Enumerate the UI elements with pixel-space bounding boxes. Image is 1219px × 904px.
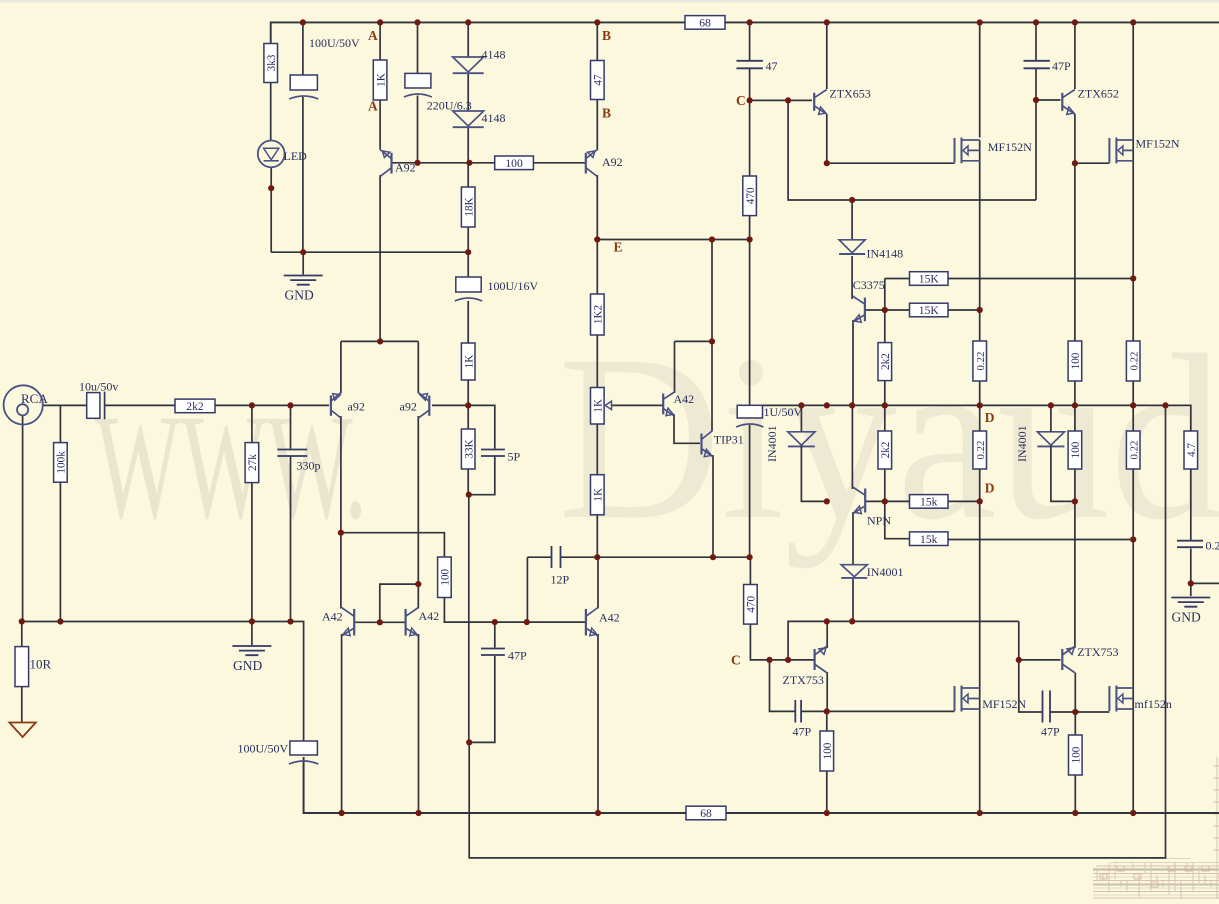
svg-text:18K: 18K — [463, 197, 475, 216]
junction J34 — [798, 402, 804, 408]
svg-text:100: 100 — [822, 742, 834, 759]
svg-text:ZTX753: ZTX753 — [783, 673, 824, 687]
wire ground row to R 10R — [21, 622, 23, 647]
junction J7 — [824, 19, 830, 25]
junction J32 — [287, 402, 293, 408]
svg-text:10u/50v: 10u/50v — [79, 380, 118, 394]
transistor Q NPN (NPN) — [853, 487, 866, 514]
capacitor C 47Pd — [1043, 691, 1051, 723]
junction J29 — [377, 338, 383, 344]
wire Q NPN emitter to D IN4001b — [852, 512, 854, 565]
junction J17 — [1033, 97, 1039, 103]
wire Q A92a base to R 100a — [392, 162, 495, 164]
capacitor C 47Pb — [481, 649, 505, 656]
junction J50 — [594, 554, 600, 560]
junction J12 — [268, 185, 274, 191]
wire LED to gnd row — [270, 167, 272, 252]
svg-text:1K: 1K — [375, 73, 387, 87]
wire TIP31 emitter down — [712, 455, 714, 557]
wire R 15Kb to M1 source line — [948, 309, 980, 311]
junction J39 — [1048, 402, 1054, 408]
svg-text:47P: 47P — [508, 649, 527, 663]
svg-text:470: 470 — [746, 596, 758, 613]
wire gnd stub 1 — [302, 252, 304, 274]
capacitor C 5P — [481, 450, 505, 457]
ground GND 2 — [232, 646, 271, 655]
svg-text:5P: 5P — [508, 450, 521, 464]
svg-text:MF152N: MF152N — [1136, 137, 1180, 151]
svg-text:470: 470 — [745, 187, 757, 204]
svg-text:GND: GND — [1172, 610, 1201, 625]
svg-text:IN4001: IN4001 — [765, 425, 779, 462]
capacitor C 330p — [277, 450, 307, 457]
junction J26 — [1130, 275, 1136, 281]
svg-text:0.2: 0.2 — [1206, 539, 1219, 553]
wire input node to C 330p — [290, 405, 292, 448]
wire 12P branch down — [526, 557, 528, 622]
svg-text:IN4001: IN4001 — [867, 565, 904, 579]
wire R 100c to Q A42c base — [444, 598, 586, 623]
svg-text:ZTX652: ZTX652 — [1078, 87, 1119, 101]
junction J66 — [1016, 657, 1022, 663]
capacitor C 100U/50V b — [289, 741, 319, 764]
junction J62 — [824, 618, 830, 624]
resistor R 33K — [461, 429, 475, 469]
wire Q A42c collector up — [597, 557, 599, 608]
wire A42mid collector riser — [674, 341, 676, 393]
diode D 4148b — [453, 111, 484, 127]
resistor R 470a — [743, 176, 757, 216]
svg-text:1U/50V: 1U/50V — [764, 405, 803, 419]
junction J55 — [19, 618, 25, 624]
junction J1 — [300, 19, 306, 25]
wire C 0.2 to gnd — [1190, 549, 1192, 597]
capacitor C 100U/16V — [455, 277, 482, 301]
junction J38 — [977, 402, 983, 408]
wire R 1K2 to trimmer — [596, 335, 598, 388]
svg-text:1K: 1K — [593, 488, 605, 502]
wire Q a92R collector to mirror — [417, 416, 419, 609]
capacitor C 220U/6.3 — [404, 73, 432, 97]
junction J75 — [1072, 810, 1078, 816]
resistor R 100f — [1068, 431, 1082, 469]
capacitor C 100U/50V a — [289, 75, 318, 99]
wire 12P to lower node row — [561, 556, 750, 558]
svg-text:1K: 1K — [463, 355, 475, 369]
diode D IN4148 — [839, 240, 865, 254]
svg-text:15k: 15k — [920, 496, 938, 509]
wire R 2k2a to mid rail — [884, 380, 886, 431]
chassis ground — [9, 723, 35, 738]
resistor R 47 — [591, 61, 605, 100]
resistor R 0.22b — [1126, 341, 1140, 381]
resistor R 68 bottom — [686, 806, 726, 820]
junction J69 — [466, 739, 472, 745]
svg-text:A42: A42 — [419, 609, 440, 623]
junction J10 — [1072, 19, 1078, 25]
wire base node to R 2k2a — [884, 279, 886, 344]
junction J65 — [785, 657, 791, 663]
svg-text:3k3: 3k3 — [266, 54, 278, 71]
resistor R 15kc — [910, 495, 949, 509]
wire 3k3 to LED — [270, 83, 272, 141]
svg-text:C: C — [736, 93, 746, 108]
junction J64 — [766, 657, 772, 663]
junction J28 — [977, 307, 983, 313]
transistor M4 mf152n (MOSFET) — [1109, 686, 1133, 712]
svg-text:MF152N: MF152N — [982, 697, 1026, 711]
junction J20 — [849, 197, 855, 203]
wire trimmer to R 1K c — [596, 424, 598, 475]
junction J33 — [465, 402, 471, 408]
svg-text:D: D — [985, 481, 995, 496]
junction J44 — [824, 498, 830, 504]
junction J9 — [1033, 19, 1039, 25]
wire Q ZTX753b collector to R 100d — [1074, 673, 1076, 735]
wire Q ZTX653 emitter to M1 gate — [827, 162, 955, 164]
ground GND 3 — [1171, 598, 1210, 607]
resistor R 1K b — [461, 343, 475, 380]
LED D1 — [258, 141, 285, 168]
junction J72 — [595, 810, 601, 816]
junction J19 — [1072, 160, 1078, 166]
resistor R 0.22c — [973, 431, 987, 469]
svg-text:0.22: 0.22 — [1128, 441, 1140, 460]
diode D 4148a — [453, 57, 484, 73]
wire mirror bases row — [354, 621, 405, 623]
svg-text:A92: A92 — [395, 161, 416, 175]
svg-text:0.22: 0.22 — [1128, 352, 1140, 371]
wire R 18K to C 100U16V — [467, 227, 469, 277]
junction J47 — [1072, 498, 1078, 504]
wire input node to R 27k — [251, 405, 253, 443]
svg-text:B: B — [602, 28, 611, 43]
resistor R 3k3 — [264, 44, 278, 83]
wire rail to C 220U — [417, 22, 419, 73]
svg-text:100: 100 — [440, 568, 452, 585]
svg-text:GND: GND — [233, 658, 262, 673]
wire R 2k2b to R 15kd — [885, 469, 910, 539]
wire node C to Q ZTX653 base — [750, 99, 812, 101]
wire A42mid collector row — [675, 340, 713, 342]
svg-text:47P: 47P — [1041, 725, 1060, 739]
junction J18 — [824, 160, 830, 166]
wire R 47 to Q A92b emitter — [596, 100, 598, 151]
wire C 1U50V to lower row — [749, 425, 751, 557]
svg-text:68: 68 — [700, 807, 712, 820]
wire R 27k to ground row — [251, 483, 253, 622]
svg-text:100: 100 — [1070, 352, 1082, 369]
svg-text:ZTX753: ZTX753 — [1077, 645, 1118, 659]
wire rail to Q ZTX652 collector — [1074, 22, 1076, 89]
svg-text:68: 68 — [699, 17, 711, 30]
junction J52 — [747, 554, 753, 560]
wire to R 15Kb — [885, 309, 910, 311]
svg-text:A42: A42 — [322, 610, 343, 624]
resistor R 1K c — [591, 475, 605, 515]
junction J11 — [1130, 19, 1136, 25]
top edge strip — [0, 0, 1219, 3]
svg-text:NPN: NPN — [867, 514, 891, 528]
wire to R 15Ka — [885, 278, 910, 280]
transistor M3 MF152N (MOSFET) — [955, 686, 980, 712]
resistor R 1K trimmer — [591, 388, 605, 425]
junction J76 — [1130, 810, 1136, 816]
junction J37 — [882, 402, 888, 408]
svg-text:a92: a92 — [400, 400, 417, 414]
wire feedback return line — [469, 405, 1165, 858]
wire R 1K b to node 33K — [467, 380, 469, 429]
svg-text:100: 100 — [1071, 746, 1083, 763]
wire Q ZTX652 emitter line down — [1074, 163, 1076, 341]
wire rail to C 47Pa — [1035, 22, 1037, 60]
svg-text:1K: 1K — [593, 399, 605, 413]
capacitor C 12P — [552, 546, 561, 568]
resistor R 1K A — [373, 60, 387, 100]
wire collector row to TIP31 — [711, 341, 713, 431]
wire R 100a to Q A92b base — [533, 162, 585, 164]
junction J51 — [710, 554, 716, 560]
resistor R 2k2 input — [175, 399, 215, 413]
svg-text:15K: 15K — [919, 273, 940, 286]
transistor Q A92b (PNP) — [586, 150, 598, 177]
svg-text:mf152n: mf152n — [1135, 697, 1172, 711]
resistor R 470b — [744, 585, 758, 625]
svg-text:E: E — [614, 240, 623, 255]
junction J22 — [709, 236, 715, 242]
svg-text:B: B — [602, 106, 611, 121]
svg-text:A42: A42 — [674, 392, 695, 406]
transistor Q A42mb (NPN) — [406, 608, 419, 637]
wire R 100d to bottom rail — [1074, 775, 1076, 813]
wire R 1K c to lower row — [596, 515, 598, 557]
wire rail to Q ZTX653 collector — [826, 22, 828, 89]
wire Q ZTX653 emitter lead — [826, 114, 828, 163]
svg-text:4.7: 4.7 — [1186, 443, 1198, 457]
resistor R 100a — [495, 156, 534, 170]
wire bus to Q NPN collector — [851, 405, 853, 489]
wire D IN4001c cathode wire — [1051, 446, 1075, 502]
svg-text:2k2: 2k2 — [186, 400, 204, 413]
resistor R 100c — [438, 557, 452, 598]
wire R 15kd to M2 line — [948, 539, 1133, 541]
resistor R 15Ka — [910, 272, 949, 286]
wire node C branch to bias row — [788, 100, 1036, 200]
wire positive top rail V+ — [271, 22, 1219, 44]
resistor R 27k — [245, 443, 259, 483]
resistor R 15Kb — [910, 303, 949, 317]
transistor Q A42mid (NPN) — [663, 392, 674, 416]
wire gnd stub 2 — [251, 622, 253, 646]
wire negative bottom rail V- — [304, 757, 1219, 813]
wire Q A42c emitter to rail — [597, 634, 599, 813]
junction J2 — [377, 19, 383, 25]
wire rail to C 47 — [749, 22, 751, 60]
svg-text:IN4001: IN4001 — [1015, 425, 1029, 462]
junction J30 — [709, 338, 715, 344]
transistor M1 MF152N (MOSFET) — [955, 138, 980, 164]
svg-text:47: 47 — [766, 59, 778, 73]
capacitor C 47Pc — [795, 700, 801, 723]
junction J71 — [415, 810, 421, 816]
resistor R 10R — [15, 647, 29, 687]
junction J45 — [882, 498, 888, 504]
svg-text:4148: 4148 — [482, 111, 506, 125]
junction J74 — [977, 810, 983, 816]
transistor Q C3375 (NPN) — [853, 296, 865, 323]
svg-text:0.22: 0.22 — [975, 352, 987, 371]
wire Q a92L collector to mirror — [340, 416, 342, 609]
transistor Q ZTX652 (NPN) — [1062, 90, 1075, 115]
transistor Q A42c (NPN) — [586, 608, 598, 637]
wire A42mb emitter to rail — [418, 634, 420, 813]
junction J70 — [339, 810, 345, 816]
wire 33K parallel loop top — [468, 405, 495, 448]
junction J49 — [1130, 536, 1136, 542]
svg-text:12P: 12P — [551, 573, 570, 587]
wire A42ma emitter to rail — [341, 634, 343, 813]
wire bias row to D IN4148 — [851, 200, 853, 240]
wire 47Pd to M4 gate — [1050, 711, 1109, 713]
diode D IN4001c — [1037, 432, 1064, 447]
transistor M2 MF152N (MOSFET) — [1109, 138, 1133, 164]
wire Q A92a collector to tail node — [379, 175, 381, 341]
junction J61 — [524, 619, 530, 625]
resistor R 100e — [820, 731, 834, 771]
svg-text:MF152N: MF152N — [988, 140, 1032, 154]
wire Q C3375 base lead — [866, 309, 885, 311]
transistor Q ZTX753b (PNP) — [1062, 646, 1075, 673]
wire drive row right — [827, 620, 1019, 622]
svg-text:100: 100 — [505, 157, 523, 170]
svg-text:100U/50V: 100U/50V — [238, 742, 289, 756]
junction J73 — [824, 810, 830, 816]
wire R 33K to node — [467, 469, 469, 495]
wire RCA shield down — [22, 415, 24, 621]
svg-text:27k: 27k — [247, 454, 259, 471]
junction J25 — [465, 249, 471, 255]
wire node E to C 1U50V — [749, 240, 751, 406]
wire rail to M1 drain — [979, 22, 981, 137]
wire M1 vertical line — [979, 140, 981, 813]
wire R 470b to node C2 and Q ZTX753a base — [750, 624, 814, 660]
resistor R 4.7 — [1184, 431, 1198, 469]
RCA connector J1 — [4, 385, 43, 424]
junction J14 — [466, 160, 472, 166]
wire C 10u to R 2k2 in — [105, 404, 175, 406]
resistor R 68 top — [685, 16, 725, 30]
wire R 100k to ground row — [59, 482, 61, 622]
junction J24 — [300, 249, 306, 255]
svg-text:LED: LED — [284, 149, 308, 163]
svg-text:47P: 47P — [793, 725, 812, 739]
resistor R 100k — [54, 443, 68, 483]
svg-text:D: D — [985, 410, 995, 425]
wire D IN4001a anode wire — [800, 405, 802, 431]
capacitor C 47 — [737, 61, 763, 69]
wire D 4148a to D 4148b — [467, 74, 469, 112]
wire D 4148b to R 18K — [467, 128, 469, 188]
svg-text:WWW.: WWW. — [95, 384, 367, 550]
junction J4 — [465, 19, 471, 25]
wire mirror base to diode collector — [380, 584, 419, 622]
wire drive to Q ZTX753b base — [1019, 621, 1061, 660]
capacitor C 10u/50v — [87, 392, 105, 420]
junction J63 — [849, 618, 855, 624]
wire Q A92b collector to node E — [596, 175, 598, 240]
wire node to C 47Pb — [494, 622, 496, 647]
transistor Q A42ma (NPN) — [342, 608, 355, 637]
transistor Q a92L (PNP) — [331, 393, 341, 419]
wire 47Pd branch — [1019, 660, 1043, 712]
svg-text:15k: 15k — [920, 533, 938, 546]
wire C 47Pa to bias row — [1035, 69, 1037, 200]
junction J42 — [1162, 402, 1168, 408]
wire tail to Q a92L emitter — [340, 341, 342, 393]
wire D IN4001a cathode wire — [801, 446, 826, 502]
wire rail to R 1K A — [379, 22, 381, 60]
wire ground row segment — [271, 251, 469, 253]
wire node to 47P corner — [468, 495, 470, 743]
junction J43 — [466, 492, 472, 498]
transistor Q A92a (PNP) — [380, 150, 391, 177]
svg-text:10R: 10R — [30, 657, 52, 672]
wire Q ZTX753a emitter stub — [826, 621, 828, 648]
svg-text:IN4148: IN4148 — [867, 247, 904, 261]
wire node E to collector row — [711, 240, 713, 342]
wire node to Q ZTX652 base — [1036, 99, 1061, 101]
junction J21 — [594, 236, 600, 242]
junction J54 — [415, 581, 421, 587]
transistor Q a92R (PNP) — [418, 393, 429, 419]
wire mirror out row to R 100c — [341, 533, 445, 557]
junction J67 — [824, 708, 830, 714]
capacitor C 0.2 — [1177, 541, 1203, 548]
trimmer wiper arrow — [605, 401, 611, 409]
svg-text:A: A — [368, 99, 378, 114]
svg-text:GND: GND — [285, 288, 314, 303]
capacitor C 47Pa — [1024, 61, 1050, 69]
wire 12P left wire — [527, 556, 551, 558]
junction J53 — [1188, 580, 1194, 586]
wire R 470a to node E — [749, 216, 751, 240]
transistor Q ZTX753a (PNP) — [815, 646, 828, 673]
junction J57 — [249, 618, 255, 624]
svg-text:A92: A92 — [602, 155, 623, 169]
junction J58 — [287, 618, 293, 624]
junction J13 — [414, 160, 420, 166]
svg-text:47P: 47P — [1052, 59, 1071, 73]
svg-text:ZTX653: ZTX653 — [829, 87, 870, 101]
capacitor C 1U/50V — [736, 405, 763, 427]
diode D IN4001b — [841, 565, 867, 578]
wire M2 vertical line — [1132, 22, 1134, 813]
wire A42mid emitter to TIP31 base — [674, 414, 700, 443]
wire base node to R 15kc — [885, 500, 910, 502]
wire 47Pc to M3 gate — [801, 710, 954, 712]
wire node E row — [597, 239, 749, 241]
wire output bus D — [763, 405, 1191, 431]
junction J8 — [977, 19, 983, 25]
junction J5 — [594, 19, 600, 25]
wire rail to D 4148a — [467, 22, 469, 57]
wire node C to R 470a — [749, 100, 751, 176]
junction J23 — [747, 236, 753, 242]
wire R 10R to chassis — [21, 687, 23, 722]
junction J36 — [849, 402, 855, 408]
wire E to R 1K2 — [596, 240, 598, 295]
svg-text:100U/16V: 100U/16V — [488, 279, 539, 293]
